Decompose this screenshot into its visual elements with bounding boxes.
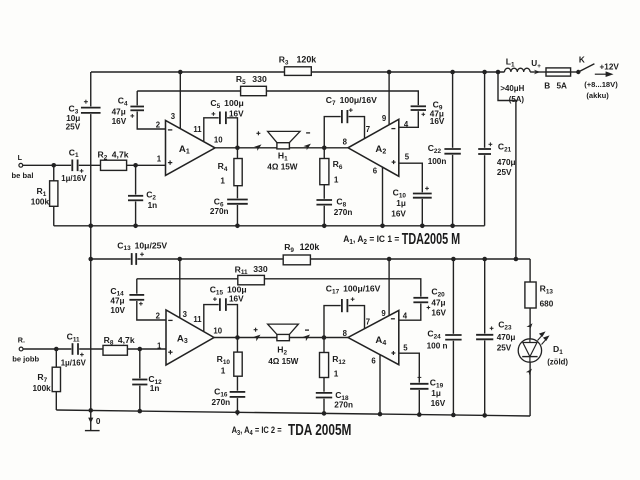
svg-text:1n: 1n: [148, 201, 158, 210]
capacitor C16: [229, 391, 247, 398]
svg-text:120k: 120k: [297, 54, 317, 64]
wire: C7 branch to pin 7: [324, 117, 364, 148]
resistor R11: [238, 275, 265, 284]
svg-text:1: 1: [334, 370, 339, 379]
svg-text:(+8...18V): (+8...18V): [584, 80, 618, 89]
svg-text:1: 1: [157, 154, 162, 163]
wire: supply feed jog down to lower channel: [498, 72, 516, 259]
svg-text:1μ/16V: 1μ/16V: [61, 359, 87, 368]
capacitor C18: [315, 392, 333, 399]
svg-text:9: 9: [382, 114, 387, 123]
capacitor C10: [412, 192, 433, 199]
capacitor C20: [412, 297, 429, 304]
svg-text:16V: 16V: [229, 295, 244, 304]
svg-text:4: 4: [403, 311, 408, 320]
LED D1: [526, 322, 534, 330]
svg-text:L: L: [18, 153, 23, 162]
svg-text:16V: 16V: [229, 110, 244, 119]
op-amp A4: [348, 310, 399, 364]
svg-text:330: 330: [252, 74, 267, 84]
svg-text:6: 6: [371, 356, 376, 365]
capacitor C17: [341, 298, 349, 313]
capacitor C14: [128, 294, 145, 301]
svg-text:5: 5: [403, 343, 408, 352]
resistor R1: [53, 165, 55, 226]
wire: main output run to A2: [215, 147, 348, 149]
wire: C17 branch to pin 7: [324, 306, 365, 338]
junction: supply feed on lower line: [514, 257, 519, 262]
svg-text:>40μH: >40μH: [500, 84, 524, 93]
capacitor C4: [129, 105, 145, 111]
switch K: [571, 71, 579, 73]
svg-text:10: 10: [213, 326, 222, 335]
svg-text:100 n: 100 n: [427, 342, 448, 351]
svg-text:1μ: 1μ: [431, 389, 441, 398]
svg-text:6: 6: [373, 167, 378, 176]
op-amp A2: [348, 119, 399, 176]
resistor R10: [234, 352, 242, 376]
svg-text:TDA 2005M: TDA 2005M: [288, 422, 351, 439]
capacitor C12: [139, 349, 141, 411]
svg-text:+12V: +12V: [600, 62, 620, 71]
wire: lower channel ground rail: [56, 410, 530, 416]
op-amp A1: [166, 120, 216, 175]
svg-text:1n: 1n: [150, 384, 160, 393]
wire: right channel input line: [23, 348, 166, 350]
svg-text:5: 5: [405, 153, 410, 162]
wire: A1 pin3 from supply rail: [179, 72, 181, 129]
svg-text:8: 8: [343, 138, 348, 147]
svg-text:270n: 270n: [334, 208, 353, 217]
svg-text:3: 3: [171, 112, 176, 121]
wire: A2 pin9 to supply rail: [388, 72, 390, 125]
wire: L1 to fuse with arrow: [530, 71, 546, 73]
fuse B 5A: [546, 68, 571, 76]
wire: A1 pin11 to C5: [204, 118, 238, 226]
capacitor C15: [219, 297, 227, 312]
svg-text:(5A): (5A): [509, 95, 525, 104]
svg-text:(akku): (akku): [586, 91, 609, 100]
svg-text:47μ: 47μ: [112, 108, 126, 117]
junction: A4 pin9 feed: [387, 257, 392, 262]
wire: A2 pin5 to C10: [399, 163, 423, 226]
resistor R6: [323, 148, 325, 226]
wire: A3 pin3 from supply line: [179, 259, 181, 318]
svg-text:be jobb: be jobb: [12, 354, 39, 363]
svg-text:5A: 5A: [557, 82, 568, 91]
svg-text:10: 10: [214, 135, 223, 144]
svg-text:680: 680: [540, 300, 554, 309]
capacitor C9: [410, 105, 427, 111]
svg-text:270n: 270n: [210, 207, 229, 216]
capacitor C5: [219, 111, 227, 126]
capacitor C19: [409, 383, 429, 390]
svg-text:1: 1: [157, 342, 162, 351]
svg-text:be bal: be bal: [12, 171, 34, 180]
capacitor C8: [315, 199, 333, 206]
svg-text:16V: 16V: [431, 399, 446, 408]
wire: C3 top lead from rail corner: [90, 72, 92, 107]
resistor R8: [103, 345, 127, 355]
wire: left input line: [23, 164, 166, 166]
junction: R2 out / C2 / pin1: [133, 163, 138, 168]
wire: A4 pin6 to ground rail: [379, 355, 381, 415]
svg-text:B: B: [544, 82, 550, 91]
wire: lower supply line with C13: [91, 258, 530, 260]
capacitor C1: [71, 159, 79, 173]
wire: A4 pin4 from C20: [399, 302, 421, 320]
junction: A3 pin3 feed: [178, 257, 183, 262]
inductor L1: [505, 68, 531, 72]
svg-text:4Ω 15W: 4Ω 15W: [268, 357, 298, 366]
wire: pin2 / C4 / R5 node: [137, 91, 165, 129]
wire: A3 pin11 to C15: [204, 305, 238, 416]
svg-text:4: 4: [404, 120, 409, 129]
junction: A1 output node: [235, 146, 240, 151]
svg-text:100k: 100k: [31, 198, 50, 207]
wire: top channel ground rail: [54, 225, 485, 227]
svg-text:47μ: 47μ: [431, 298, 445, 307]
svg-text:9: 9: [381, 309, 386, 318]
svg-text:TDA2005 M: TDA2005 M: [402, 231, 461, 248]
wire: A4 pin9 to supply line: [388, 259, 390, 316]
capacitor C2: [135, 165, 137, 226]
resistor R4: [234, 159, 242, 186]
svg-text:8: 8: [343, 329, 348, 338]
wire: top supply rail: [91, 71, 505, 73]
svg-text:16V: 16V: [112, 117, 127, 126]
svg-text:330: 330: [253, 264, 268, 274]
junction: A4 input node (pin 8): [322, 335, 327, 340]
svg-text:100n: 100n: [428, 157, 447, 166]
svg-text:16V: 16V: [430, 117, 445, 126]
svg-text:3: 3: [183, 310, 188, 319]
resistor R12: [323, 338, 325, 416]
svg-text:16V: 16V: [431, 309, 446, 318]
capacitor C7: [341, 109, 349, 124]
svg-text:2: 2: [156, 311, 161, 320]
svg-text:100k: 100k: [33, 384, 52, 393]
svg-text:1: 1: [220, 177, 225, 186]
svg-text:25V: 25V: [497, 343, 512, 352]
node: input R terminal: [19, 347, 23, 351]
svg-text:1μ: 1μ: [396, 199, 406, 208]
svg-text:7: 7: [366, 125, 370, 134]
junction: A2 input node (pin 8): [322, 146, 327, 151]
svg-text:0: 0: [96, 417, 101, 426]
wire: lower main output run to A4: [214, 337, 348, 339]
wire: pin2 / C14 / R11 node: [137, 279, 166, 320]
wire: A2 pin4 from C9: [399, 110, 419, 127]
svg-text:25V: 25V: [497, 168, 512, 177]
junction: A3 output node: [235, 335, 240, 340]
svg-text:1: 1: [334, 175, 339, 184]
wire: R5 feedback line to C9: [137, 91, 418, 106]
svg-text:270n: 270n: [212, 398, 231, 407]
ground symbol 0: [90, 410, 92, 430]
wire: R11 feedback line to C20: [137, 279, 421, 298]
capacitor C6: [226, 198, 249, 205]
wire: ground bus vertical (C3 bottom to ground): [90, 113, 92, 411]
capacitor C13: [131, 252, 138, 266]
capacitor C11: [71, 342, 79, 356]
resistor R3: [285, 67, 312, 76]
resistor R7: [55, 349, 57, 410]
svg-text:120k: 120k: [300, 242, 320, 252]
speaker H1: [254, 142, 263, 151]
resistor R2: [101, 160, 127, 170]
svg-text:1μ/16V: 1μ/16V: [61, 174, 87, 183]
resistor R9: [283, 255, 310, 265]
capacitor C24: [452, 259, 454, 415]
svg-text:16V: 16V: [391, 209, 406, 218]
capacitor C21: [484, 72, 486, 226]
svg-text:25V: 25V: [66, 123, 81, 132]
svg-text:270n: 270n: [334, 400, 353, 409]
svg-text:11: 11: [193, 125, 202, 134]
svg-text:(zöld): (zöld): [547, 358, 568, 367]
capacitor C23: [484, 259, 486, 415]
op-amp A3: [166, 310, 214, 365]
wire: A4 pin5 to C19: [399, 353, 420, 415]
resistor R5: [241, 86, 267, 95]
junction: input / R1: [51, 163, 56, 168]
svg-text:10V: 10V: [110, 306, 125, 315]
svg-text:470μ: 470μ: [497, 158, 516, 167]
svg-text:11: 11: [193, 315, 202, 324]
svg-text:470μ: 470μ: [497, 333, 516, 342]
svg-text:K: K: [579, 55, 585, 64]
capacitor C3: [80, 106, 102, 114]
resistor R13: [529, 259, 531, 416]
svg-text:R.: R.: [18, 335, 25, 344]
svg-text:47μ: 47μ: [110, 297, 124, 306]
speaker H2: [253, 333, 262, 342]
capacitor C22: [452, 72, 454, 226]
node: input L terminal: [19, 163, 23, 167]
svg-text:4Ω 15W: 4Ω 15W: [267, 162, 297, 171]
svg-text:1: 1: [221, 366, 226, 375]
wire: A2 pin6 to ground rail: [382, 167, 384, 226]
svg-text:2: 2: [156, 120, 161, 129]
